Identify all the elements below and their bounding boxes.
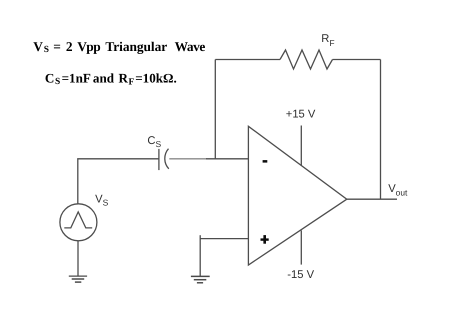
svg-text:RF: RF [321, 33, 334, 48]
svg-text:Vout: Vout [388, 183, 408, 198]
svg-text:-15 V: -15 V [287, 269, 314, 281]
svg-text:VS: VS [95, 194, 108, 208]
svg-text:VS=2VppTriangularWave: VS=2VppTriangularWave [33, 39, 205, 55]
svg-text:CS: CS [147, 135, 161, 149]
svg-text:CS=1nFandRF=10kΩ.: CS=1nFandRF=10kΩ. [45, 71, 177, 88]
svg-text:+15 V: +15 V [286, 109, 316, 121]
